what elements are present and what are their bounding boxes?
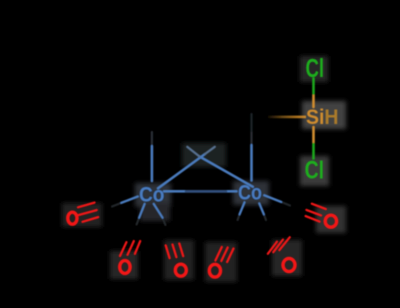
wire C half Co1 lambda right bbox=[163, 218, 166, 225]
bond Si-Cl top: green half bbox=[312, 79, 315, 94]
atom O5 bbox=[283, 258, 295, 271]
carbonyl triple bonds, red bbox=[78, 203, 326, 262]
bond Si-Cl top: orange half bbox=[312, 95, 315, 107]
wire Co2-C1 diagonal bond bbox=[200, 157, 253, 187]
wire Co1 to lower-left carbonyl bbox=[139, 204, 144, 218]
svg-text:Co: Co bbox=[238, 181, 262, 205]
wire Co1 to left carbonyl bbox=[122, 197, 138, 203]
svg-text:Cl: Cl bbox=[305, 158, 324, 185]
jpeg halo blocks bbox=[62, 56, 346, 282]
bond Si-Cl bottom: orange half bbox=[312, 127, 315, 143]
atom O6 bbox=[325, 215, 336, 227]
atom O3 bbox=[175, 264, 186, 276]
atom O4 bbox=[209, 264, 220, 277]
bond C6'#O6 triple bbox=[312, 204, 326, 209]
wire Co1-C2 diagonal bond bbox=[158, 154, 205, 188]
wire Co2 to lower-right carbonyl bbox=[259, 203, 264, 214]
wire C-CH2 above right vertical bbox=[250, 131, 252, 145]
wire Co1-C1 vertical bond bbox=[151, 146, 154, 181]
wire Co2-C2 vertical bond bbox=[250, 145, 253, 180]
faint carbon half-bonds bbox=[112, 114, 290, 225]
bond C2'#O2 triple bbox=[120, 242, 126, 256]
bond C5'#O5 triple bbox=[268, 242, 277, 254]
wire Co2 to right carbonyl bbox=[264, 195, 281, 202]
svg-text:Cl: Cl bbox=[306, 55, 325, 83]
wire C half Co2 lambda left bbox=[238, 214, 240, 220]
bond Si-Cl bottom: green half bbox=[312, 144, 315, 159]
wire C half below Co1 left CO bbox=[112, 203, 122, 207]
wire Co1 to lower-right carbonyl bbox=[154, 204, 163, 218]
bond C3'#O3 triple bbox=[166, 245, 170, 258]
bond C4'#O4 triple bbox=[215, 247, 221, 261]
wire C half Co1 lambda left bbox=[137, 218, 140, 225]
wire CH2-Si bond fading bbox=[268, 116, 306, 119]
carbonyl oxygens, red rings bbox=[68, 212, 337, 277]
wire Co1-C2 diagonal carbon tip bbox=[205, 147, 215, 154]
wire Co2-C1 diagonal carbon tip bbox=[187, 147, 199, 157]
wire C half Co2 lambda right bbox=[264, 214, 266, 220]
atom O1 bbox=[68, 212, 77, 224]
wire Co-Co bond bbox=[164, 190, 237, 193]
cobalt-cobalt and cobalt-carbon framework, blue bbox=[122, 145, 282, 217]
svg-text:SiH: SiH bbox=[306, 106, 339, 129]
wire Co2 to lower-left carbonyl bbox=[240, 202, 245, 214]
wire CH2 stem bbox=[250, 114, 252, 131]
wire Co-Co bond darker middle bbox=[186, 190, 226, 193]
wire C-CH3 above left vertical bbox=[151, 132, 153, 146]
atom O2 bbox=[120, 261, 130, 274]
wire C half below Co2 right CO bbox=[281, 202, 290, 206]
bond C1'#O1 triple bbox=[78, 203, 95, 208]
svg-text:Co: Co bbox=[139, 183, 165, 207]
